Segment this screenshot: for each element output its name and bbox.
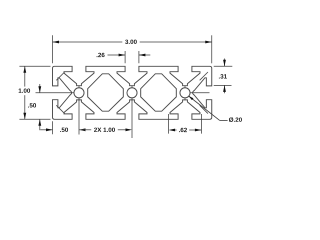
centerline through left end slot and hole 1	[36, 92, 74, 94]
channel below hole 3	[184, 98, 186, 100]
dim 1.00 text	[19, 88, 30, 92]
dim 2X 1.00	[79, 128, 86, 131]
dim 3.00 ext lines	[52, 35, 54, 63]
dim .26 text	[97, 53, 105, 57]
dim .50 left arrows	[39, 84, 41, 93]
centerline below hole 1 (ext for .50/2X 1.00)	[78, 98, 80, 135]
hole 3	[180, 88, 190, 98]
dim 1.00 line	[24, 66, 26, 86]
centerline right end slot	[190, 92, 209, 94]
hole 2	[127, 88, 137, 98]
dim .26 ext lines	[124, 51, 126, 63]
bottom ext line at left edge	[52, 121, 54, 134]
dim .31 ext lines	[214, 65, 233, 67]
cavity diamond 1	[88, 74, 124, 111]
channel above hole at x=185.0	[184, 86, 186, 88]
dim .50 bottom	[40, 129, 52, 131]
dia .20 text	[229, 117, 242, 122]
leader line for hole diameter	[189, 96, 220, 120]
profile outline	[53, 66, 212, 119]
dim .31 arrows	[224, 59, 226, 67]
dim .62 line	[169, 129, 176, 132]
dim 1.00 ext lines	[19, 65, 50, 67]
dim .31 text	[219, 74, 227, 78]
cavity diamond 2	[141, 74, 177, 111]
dim 3.00 line	[53, 41, 123, 43]
dim 3.00 text	[125, 40, 137, 44]
bottom-left corner chamfer	[56, 105, 64, 113]
channel above hole at x=79.0	[78, 86, 80, 88]
centerline below hole 2 (ext for 2X 1.00)	[131, 98, 133, 138]
channel above hole at x=132.0	[131, 86, 133, 88]
dim .62 ext lines	[168, 114, 170, 134]
dim .26 line+arrows	[108, 54, 126, 56]
top-left corner chamfer	[56, 72, 64, 80]
bottom-right corner chamfer	[200, 105, 208, 113]
dim .50 left text	[28, 103, 36, 107]
top-right corner chamfer	[200, 72, 208, 80]
hole 1	[74, 88, 84, 98]
